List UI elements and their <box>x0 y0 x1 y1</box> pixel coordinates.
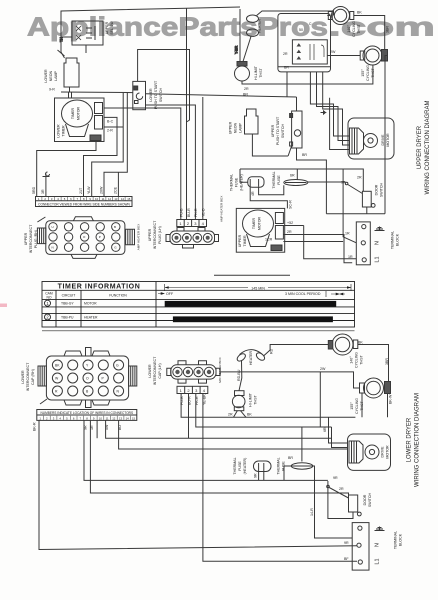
label terminal block upper <box>348 231 400 263</box>
label door switch upper <box>341 176 384 198</box>
svg-text:THERMAL: THERMAL <box>277 457 281 474</box>
svg-text:NO: NO <box>46 295 51 299</box>
svg-text:SWITCH: SWITCH <box>159 88 163 103</box>
svg-text:UPPER: UPPER <box>24 232 28 245</box>
wire pill top vertical <box>319 372 321 427</box>
wire labels below LH strip <box>180 394 207 405</box>
svg-text:14: 14 <box>126 416 130 420</box>
upper interconnect plug strip <box>36 197 133 207</box>
155 deg cycling thermostat upper <box>327 46 387 214</box>
svg-text:INTERCONNECT: INTERCONNECT <box>26 362 30 391</box>
right edge label lower diagram <box>407 393 421 487</box>
svg-text:FUNCTION: FUNCTION <box>109 294 127 298</box>
wire timer top feeds <box>68 92 70 98</box>
svg-text:21T: 21T <box>79 187 83 194</box>
upper neon lamp DS1 <box>245 109 292 156</box>
svg-text:YLW: YLW <box>87 186 91 194</box>
svg-text:20W: 20W <box>99 186 103 194</box>
row 2 cam 2 <box>45 314 99 320</box>
wire vertical heater feed <box>239 9 241 62</box>
label 155 upper <box>330 50 375 81</box>
svg-text:2R: 2R <box>228 413 233 417</box>
label upper plug LH <box>148 220 162 249</box>
svg-text:TBB-GY: TBB-GY <box>61 302 74 306</box>
svg-text:MOTOR: MOTOR <box>84 302 97 306</box>
svg-text:11: 11 <box>102 197 105 201</box>
svg-text:LOWER: LOWER <box>57 124 61 138</box>
svg-text:MOTOR: MOTOR <box>258 216 262 230</box>
svg-text:BF: BF <box>344 557 349 561</box>
label lower cap LH <box>148 356 162 385</box>
heater EL1 upper <box>243 11 334 62</box>
svg-text:PUSH TO START: PUSH TO START <box>276 116 280 145</box>
svg-text:3BR: 3BR <box>385 358 389 365</box>
svg-text:UPPER: UPPER <box>229 121 233 134</box>
svg-text:9R: 9R <box>333 476 338 480</box>
label neon lamp DS2 <box>44 69 58 83</box>
label heater lower <box>237 348 274 381</box>
label thermal fuse upper <box>272 171 295 188</box>
svg-text:155°: 155° <box>350 402 354 410</box>
svg-text:13: 13 <box>114 197 118 201</box>
door switch lower <box>327 481 361 519</box>
svg-text:HI-LIMIT: HI-LIMIT <box>254 65 258 80</box>
svg-text:PLUG (LH): PLUG (LH) <box>158 226 162 244</box>
svg-text:CAP (RH): CAP (RH) <box>31 369 35 385</box>
terminal block lower <box>352 523 369 571</box>
wire LH pin1 bus <box>181 394 355 418</box>
label 140 lower <box>350 341 390 368</box>
svg-text:LAMP: LAMP <box>239 123 243 133</box>
svg-text:TIMER: TIMER <box>252 218 256 230</box>
label upper plug RH <box>24 224 38 253</box>
155 deg cycling thermostat lower <box>360 378 391 417</box>
svg-text:HI-LIMIT: HI-LIMIT <box>249 392 253 407</box>
svg-text:LOWER: LOWER <box>148 364 152 378</box>
hi-limit thermostat lower <box>232 361 246 417</box>
svg-text:P: P <box>99 235 101 239</box>
label hi-limit upper <box>244 65 263 91</box>
chart annotation off / cool period <box>158 291 345 297</box>
svg-text:CIRCUIT: CIRCUIT <box>62 294 76 298</box>
svg-text:THST: THST <box>259 68 263 78</box>
timer information table frame <box>42 282 355 328</box>
svg-text:9-R: 9-R <box>49 88 55 92</box>
svg-text:BK-W: BK-W <box>389 394 393 404</box>
svg-text:FUSE: FUSE <box>238 461 242 471</box>
svg-text:SC-R: SC-R <box>289 200 293 209</box>
label console switch <box>105 21 114 35</box>
svg-text:O: O <box>86 377 89 381</box>
label upper PTS switch <box>271 116 307 157</box>
label lower PTS switch <box>149 80 163 109</box>
svg-text:B-C: B-C <box>107 120 114 124</box>
svg-text:TERMINAL: TERMINAL <box>391 231 395 249</box>
wire pin4 drop <box>202 97 204 220</box>
wire console loop top-left <box>61 7 240 52</box>
label door switch lower <box>333 476 372 507</box>
wire to door bus <box>104 93 127 197</box>
svg-text:NUMBERS INDICATE LOCATION OF W: NUMBERS INDICATE LOCATION OF WIRES IN CO… <box>40 411 133 415</box>
neon lamp DS2 <box>61 52 79 92</box>
svg-text:N: N <box>375 241 381 245</box>
svg-text:BLOCK: BLOCK <box>396 233 400 246</box>
svg-text:THST: THST <box>360 401 364 411</box>
svg-text:TBB-PU: TBB-PU <box>61 315 74 319</box>
svg-text:10: 10 <box>95 197 99 201</box>
svg-text:THST: THST <box>371 68 375 78</box>
svg-text:B: B <box>114 225 116 229</box>
svg-text:LOWER: LOWER <box>21 370 25 384</box>
lower timer T2 box <box>55 98 105 142</box>
wire LH pin3 bus <box>196 394 332 428</box>
wire ground stub to strip col2 <box>45 177 47 197</box>
black bar motor <box>165 301 337 307</box>
wire relay to bus <box>286 72 288 97</box>
140 deg cycling thermostat upper <box>327 7 384 50</box>
svg-text:THST: THST <box>360 355 364 365</box>
ground symbol lower <box>375 527 385 531</box>
wire timer to LH pin1 <box>104 108 181 220</box>
svg-text:FUSE: FUSE <box>277 175 281 185</box>
svg-text:YE-D: YE-D <box>202 208 206 217</box>
svg-text:INTERCONNECT: INTERCONNECT <box>29 224 33 253</box>
door switch upper <box>345 182 375 214</box>
svg-text:TH: TH <box>60 37 64 42</box>
svg-text:FUSE: FUSE <box>282 461 286 471</box>
wire dark contact to strip col1 <box>37 141 96 197</box>
wire vertical to LH plug pin2 <box>186 8 188 219</box>
wire 10R run to N <box>84 117 118 196</box>
svg-text:DOOR: DOOR <box>375 184 379 195</box>
svg-text:SWITCH: SWITCH <box>281 124 285 139</box>
label thermal fuse heater lower <box>233 457 258 478</box>
svg-text:THERMAL: THERMAL <box>233 457 237 474</box>
wire label 10R <box>265 232 350 242</box>
svg-text:CYCLING: CYCLING <box>355 398 359 414</box>
svg-text:DOOR: DOOR <box>363 494 367 505</box>
svg-text:N: N <box>375 543 381 547</box>
svg-text:12: 12 <box>112 416 116 420</box>
svg-text:13: 13 <box>119 416 123 420</box>
140 deg cycling thermostat lower <box>328 334 388 382</box>
svg-text:RD: RD <box>270 348 274 354</box>
svg-text:2W: 2W <box>320 367 326 371</box>
svg-text:PLUG (RH): PLUG (RH) <box>34 230 38 248</box>
svg-text:6R: 6R <box>323 427 327 432</box>
motor feed wires <box>310 72 349 136</box>
upper interconnect plug LH strip <box>177 220 207 227</box>
wire 155 right flange down <box>387 394 389 418</box>
svg-text:TIMER: TIMER <box>62 125 66 137</box>
svg-text:THST: THST <box>357 24 361 34</box>
wire bus y213.7 <box>326 213 385 215</box>
svg-text:THERMAL: THERMAL <box>272 171 276 188</box>
svg-text:11: 11 <box>106 416 109 420</box>
svg-text:AMP HEATER BOX: AMP HEATER BOX <box>220 196 224 222</box>
svg-text:2CE: 2CE <box>114 186 118 194</box>
svg-text:1R: 1R <box>348 255 353 259</box>
svg-text:3 MIN COOL PERIOD: 3 MIN COOL PERIOD <box>285 292 321 296</box>
svg-text:TIMER: TIMER <box>243 235 247 247</box>
svg-text:L1: L1 <box>375 558 381 564</box>
thermal fuse upper <box>284 169 345 186</box>
svg-text:3R: 3R <box>41 189 45 194</box>
svg-text:PU-B: PU-B <box>179 208 183 217</box>
svg-text:5RD: 5RD <box>32 186 36 194</box>
svg-text:HEATER: HEATER <box>258 18 262 33</box>
wire vertical 343 <box>343 169 356 243</box>
svg-text:RD-BU: RD-BU <box>237 369 241 381</box>
label drive motor lower <box>381 445 390 459</box>
drive motor M2 lower <box>348 434 391 470</box>
label hi-limit lower <box>228 392 258 416</box>
label upper timer <box>238 216 262 247</box>
label timer motor <box>57 106 81 137</box>
svg-text:BR: BR <box>284 66 289 70</box>
svg-text:DRIVE: DRIVE <box>381 134 385 146</box>
wire bus y168.7 <box>240 169 363 191</box>
svg-text:2R: 2R <box>357 176 362 180</box>
svg-text:LOWER: LOWER <box>44 69 48 83</box>
svg-text:15: 15 <box>132 416 136 420</box>
pink scan mark <box>0 304 7 308</box>
svg-text:HEATER: HEATER <box>84 315 98 319</box>
svg-text:2R: 2R <box>287 230 292 234</box>
svg-text:14: 14 <box>121 197 125 201</box>
svg-text:9R: 9R <box>254 473 258 478</box>
svg-text:INTERCONNECT: INTERCONNECT <box>153 356 157 385</box>
svg-text:G: G <box>116 364 119 368</box>
svg-text:1CR: 1CR <box>265 238 273 242</box>
label drive motor upper <box>381 133 390 147</box>
svg-text:DRIVE: DRIVE <box>381 446 385 458</box>
svg-text:BR: BR <box>243 93 248 97</box>
wire LH pin2 join <box>188 394 190 439</box>
svg-text:2W: 2W <box>330 50 336 54</box>
svg-text:MOTOR: MOTOR <box>386 445 390 459</box>
svg-text:2R: 2R <box>244 87 249 91</box>
svg-text:3BR: 3BR <box>386 26 390 33</box>
svg-text:INTERCONNECT: INTERCONNECT <box>153 220 157 249</box>
wire cap pin to door bus2 <box>90 420 348 498</box>
svg-text:CYCLING: CYCLING <box>355 352 359 368</box>
svg-text:Y-BR: Y-BR <box>235 45 239 54</box>
svg-text:140°: 140° <box>347 25 351 33</box>
right edge label upper diagram <box>417 100 431 194</box>
svg-text:WIRING CONNECTION DIAGRAM: WIRING CONNECTION DIAGRAM <box>415 393 421 487</box>
svg-text:BK: BK <box>247 413 252 417</box>
svg-text:N: N <box>52 246 54 250</box>
wire motor pin feeds <box>329 417 349 443</box>
wire bus 371 to 155 flange <box>220 372 360 388</box>
svg-text:+52: +52 <box>287 221 293 225</box>
svg-text:HEATER: HEATER <box>249 350 253 365</box>
svg-text:CONNECTOR VIEWED FROM WIRE SID: CONNECTOR VIEWED FROM WIRE SIDE NUMBERS … <box>38 203 130 207</box>
svg-text:50: 50 <box>299 28 303 32</box>
thermal fuse heater upper <box>240 169 287 208</box>
svg-text:BK: BK <box>55 364 60 368</box>
svg-text:BK: BK <box>358 341 363 345</box>
svg-text:THERMAL: THERMAL <box>230 174 234 191</box>
lower interconnect cap RH <box>38 348 137 408</box>
svg-text:2-R: 2-R <box>107 129 113 133</box>
svg-text:TIMER INFORMATION: TIMER INFORMATION <box>58 284 141 291</box>
upper push-to-start switch S1 <box>290 97 327 214</box>
lower push-to-start switch S2 <box>133 81 146 109</box>
terminal block upper <box>356 222 370 265</box>
lower cap strip <box>37 410 137 421</box>
wire labels below strip <box>33 422 123 431</box>
svg-text:15: 15 <box>127 197 131 201</box>
label thermal fuse lower <box>277 456 314 516</box>
svg-text:140°: 140° <box>350 356 354 364</box>
svg-text:CAP (LH): CAP (LH) <box>158 363 162 378</box>
svg-text:14-R: 14-R <box>310 508 314 516</box>
svg-text:NEON: NEON <box>49 70 53 81</box>
label 140 upper <box>347 11 390 37</box>
svg-text:SWITCH: SWITCH <box>368 493 372 508</box>
hi-limit thermostat upper <box>235 62 373 85</box>
svg-text:BR: BR <box>302 153 307 157</box>
svg-text:2R: 2R <box>339 487 344 491</box>
svg-text:TIMER: TIMER <box>71 108 75 120</box>
wire cap pin motor bus1 <box>106 420 332 438</box>
wire hatch tick <box>58 50 65 56</box>
svg-text:SWITCH: SWITCH <box>380 183 384 198</box>
lower cap LH strip <box>177 386 208 393</box>
label thermal fuse heater upper <box>230 174 256 196</box>
chart annotation 145 min <box>165 284 351 291</box>
svg-text:M/C HEATER BOX: M/C HEATER BOX <box>218 357 222 382</box>
wire labels BC 2R <box>107 120 114 133</box>
svg-text:UPPER: UPPER <box>271 124 275 137</box>
wire cap pin to door bus1 <box>84 420 328 480</box>
thermal fuse heater lower <box>254 461 272 480</box>
heater EL2 lower <box>236 345 328 363</box>
svg-text:(HEATER): (HEATER) <box>243 458 247 475</box>
svg-text:BLOCK: BLOCK <box>399 533 403 546</box>
wire stub under timer <box>214 274 290 276</box>
svg-text:THST: THST <box>254 395 258 405</box>
thermal fuse lower <box>284 463 352 538</box>
svg-text:UPPER DRYER: UPPER DRYER <box>417 125 423 169</box>
upper interconnect plug RH <box>37 217 134 259</box>
svg-text:CYCLING: CYCLING <box>352 21 356 37</box>
upper interconnect plug LH connector <box>166 228 219 249</box>
wire strip col13 drop <box>117 172 119 196</box>
label lower cap RH <box>21 362 35 391</box>
svg-text:LOWER DRYER: LOWER DRYER <box>407 417 413 462</box>
label terminal block lower <box>344 531 403 565</box>
svg-text:WIRING CONNECTION DIAGRAM: WIRING CONNECTION DIAGRAM <box>425 100 431 194</box>
selector relay box U1 <box>278 14 331 72</box>
svg-text:9R: 9R <box>341 181 346 185</box>
svg-text:CYCLING: CYCLING <box>366 65 370 81</box>
row 1 cam 1 <box>45 300 98 306</box>
svg-text:2R: 2R <box>283 52 288 56</box>
table headers <box>45 292 127 300</box>
svg-text:UPPER: UPPER <box>238 234 242 247</box>
wire labels above strip <box>32 186 118 194</box>
lower interconnect cap LH <box>167 361 220 383</box>
svg-text:4R: 4R <box>251 191 255 196</box>
drive motor M1 upper <box>348 118 394 159</box>
svg-text:UPPER: UPPER <box>148 228 152 241</box>
svg-text:(HEATER): (HEATER) <box>240 174 244 191</box>
svg-text:PK-R: PK-R <box>194 208 198 217</box>
svg-text:BK: BK <box>357 11 362 15</box>
svg-text:AMP HEATER BOX: AMP HEATER BOX <box>137 224 141 250</box>
svg-text:155°: 155° <box>361 69 365 77</box>
svg-text:SEL SW: SEL SW <box>110 21 114 35</box>
wire PTS to LH pin3 <box>146 105 196 220</box>
svg-text:U: U <box>52 225 54 229</box>
wire LH pin4 to L1 <box>203 394 357 562</box>
label 155 lower <box>320 367 393 432</box>
wire bus BR y97 <box>146 94 297 97</box>
svg-text:1R: 1R <box>345 232 350 236</box>
svg-text:TERMINAL: TERMINAL <box>394 531 398 549</box>
svg-text:12: 12 <box>108 197 112 201</box>
wire timer contacts to right <box>283 225 303 227</box>
wire stub x97 <box>96 420 98 438</box>
svg-text:BK-R: BK-R <box>33 422 37 431</box>
wire to L1 <box>92 93 124 197</box>
svg-text:6R: 6R <box>290 174 295 178</box>
svg-text:MOTOR: MOTOR <box>77 106 81 120</box>
svg-text:10: 10 <box>99 416 103 420</box>
svg-text:9R: 9R <box>344 541 349 545</box>
ground symbol upper <box>375 227 385 231</box>
svg-text:OFF: OFF <box>166 292 174 296</box>
svg-text:FUSE: FUSE <box>235 177 239 187</box>
wire PTS loop <box>138 50 190 123</box>
wire cap pin motor bus2 <box>119 420 348 449</box>
svg-text:UPPER: UPPER <box>105 21 109 34</box>
svg-text:NEON: NEON <box>234 122 238 133</box>
wire cap pin to N <box>39 420 357 549</box>
console rotary switch SW1 <box>60 21 104 53</box>
svg-text:LOWER: LOWER <box>149 88 153 102</box>
upper timer T1 box <box>236 208 284 252</box>
svg-text:BR: BR <box>288 456 293 460</box>
black bar heater <box>173 316 333 322</box>
svg-text:L1: L1 <box>375 256 381 262</box>
svg-text:MOTOR: MOTOR <box>386 133 390 147</box>
svg-text:BU-R: BU-R <box>187 208 191 217</box>
svg-text:LAMP: LAMP <box>54 71 58 81</box>
svg-text:145 MIN: 145 MIN <box>251 286 265 290</box>
label upper neon lamp <box>229 121 243 134</box>
wire labels above LH strip <box>179 208 205 217</box>
